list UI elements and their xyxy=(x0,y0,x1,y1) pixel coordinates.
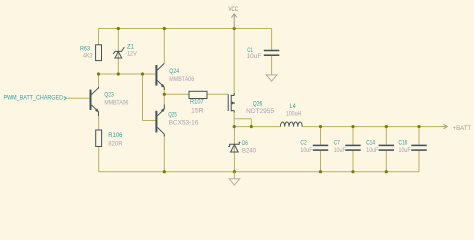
wire C16 top xyxy=(418,127,420,145)
transistor Q23 xyxy=(90,87,129,116)
svg-text:15R: 15R xyxy=(191,107,204,114)
svg-text:820R: 820R xyxy=(108,141,123,148)
wire C7 bottom xyxy=(352,151,354,172)
wire bottom rail xyxy=(99,171,419,173)
transistor Q25 xyxy=(155,105,198,137)
junction node drain left xyxy=(233,125,236,128)
resistor R106 xyxy=(96,130,123,148)
svg-text:Q23: Q23 xyxy=(104,91,114,98)
wire C1 bottom to ground xyxy=(271,55,273,75)
svg-text:100uH: 100uH xyxy=(286,111,302,118)
svg-text:4K3: 4K3 xyxy=(83,52,93,59)
wire C16 bottom xyxy=(418,151,420,172)
inductor L4 xyxy=(280,103,302,127)
junction node C14 top xyxy=(385,125,388,128)
ground under D6 xyxy=(229,172,240,185)
junction node R63/Q23 xyxy=(97,72,100,75)
svg-text:MMBTA06: MMBTA06 xyxy=(104,99,128,106)
wire R106 top xyxy=(98,116,100,130)
capacitor C16 xyxy=(399,140,427,155)
wire C2 top xyxy=(320,127,322,145)
wire mid rail left of L4 xyxy=(234,126,280,128)
wire Q26 source xyxy=(233,29,235,96)
junction node VCC rail xyxy=(233,27,236,30)
svg-text:Q25: Q25 xyxy=(168,112,177,119)
svg-text:10uF: 10uF xyxy=(300,147,312,154)
junction node C7 top xyxy=(351,125,354,128)
svg-text:VCC: VCC xyxy=(229,6,239,13)
node +BATT arrow xyxy=(442,124,472,132)
junction node Q25 collector rail xyxy=(163,170,166,173)
junction node emitter R107 xyxy=(163,93,166,96)
svg-text:Q26: Q26 xyxy=(253,100,263,107)
resistor R63 xyxy=(80,45,102,61)
capacitor C1 xyxy=(247,47,280,60)
wire Q26 drain loop right xyxy=(250,119,252,127)
svg-text:10uF: 10uF xyxy=(334,147,346,154)
wire Q26 drain stub xyxy=(233,112,235,127)
wire C14 bottom xyxy=(385,151,387,172)
wire Q23 collector xyxy=(98,74,100,87)
svg-text:BCX53-16: BCX53-16 xyxy=(169,119,199,126)
svg-text:Z1: Z1 xyxy=(127,43,134,50)
transistor Q24 xyxy=(155,63,194,90)
svg-text:NDT2955: NDT2955 xyxy=(246,108,274,115)
junction node Z1 top rail xyxy=(117,27,120,30)
wire Q24 emitter to node xyxy=(163,88,165,105)
wire Z1 bottom xyxy=(117,58,119,74)
wire node to R107 xyxy=(164,93,189,95)
wire R107 to gate xyxy=(207,93,228,95)
svg-text:C7: C7 xyxy=(334,140,341,147)
mosfet Q26 xyxy=(228,93,274,115)
junction node C2 top xyxy=(319,125,322,128)
svg-text:C16: C16 xyxy=(399,140,408,147)
global label PWM_BATT_CHARGED xyxy=(4,95,67,102)
wire Q25 base horizontal xyxy=(143,120,156,122)
svg-text:MMBTA06: MMBTA06 xyxy=(169,76,194,83)
wire D6 bottom xyxy=(233,152,235,172)
wire R106 bottom xyxy=(98,147,100,172)
svg-text:+BATT: +BATT xyxy=(453,125,472,132)
svg-text:R107: R107 xyxy=(190,99,204,106)
wire Q25 collector down xyxy=(163,135,165,172)
wire mid rail right of L4 xyxy=(302,126,441,128)
junction node C14 bottom xyxy=(385,170,388,173)
svg-text:C2: C2 xyxy=(300,140,307,147)
svg-text:L4: L4 xyxy=(290,103,296,110)
svg-text:10uF: 10uF xyxy=(366,147,378,154)
junction node C7 bottom xyxy=(351,170,354,173)
capacitor C14 xyxy=(366,140,394,155)
resistor R107 xyxy=(189,91,207,114)
svg-text:Q24: Q24 xyxy=(169,68,179,75)
svg-text:10uF: 10uF xyxy=(247,53,262,60)
wire top rail VCC xyxy=(99,28,272,30)
junction node Q25 base branch xyxy=(141,72,144,75)
ground under C1 xyxy=(266,75,277,81)
wire Q24 collector xyxy=(163,29,165,64)
wire R63 top xyxy=(98,29,100,45)
svg-text:D6: D6 xyxy=(242,140,248,147)
wire base rail xyxy=(99,73,156,75)
capacitor C7 xyxy=(334,140,361,155)
svg-text:PWM_BATT_CHARGED: PWM_BATT_CHARGED xyxy=(4,95,64,102)
svg-text:10uF: 10uF xyxy=(399,147,411,154)
power VCC xyxy=(229,6,239,29)
wire C2 bottom xyxy=(320,151,322,172)
junction node C2 bottom xyxy=(319,170,322,173)
wire Q26 drain loop top xyxy=(234,118,251,120)
junction node C16 top xyxy=(417,125,420,128)
junction node D6 ground rail xyxy=(233,170,236,173)
svg-text:R106: R106 xyxy=(108,132,123,139)
wire C7 top xyxy=(352,127,354,145)
capacitor C2 xyxy=(300,140,328,155)
wire C14 top xyxy=(385,127,387,145)
junction node Q24 collector rail xyxy=(163,27,166,30)
wire C1 top xyxy=(271,29,273,51)
wire Q25 base vertical xyxy=(142,74,144,121)
junction node drain right xyxy=(250,125,253,128)
wire D6 top xyxy=(233,127,235,152)
wire Z1 top xyxy=(117,29,119,58)
schottky diode D6 xyxy=(228,140,256,155)
svg-text:12V: 12V xyxy=(127,51,138,58)
zener diode Z1 xyxy=(113,43,137,58)
svg-text:C14: C14 xyxy=(366,140,375,147)
junction node Z1 bottom xyxy=(117,72,120,75)
svg-text:B240: B240 xyxy=(242,148,256,155)
wire PWM label to Q23 base xyxy=(68,97,90,99)
